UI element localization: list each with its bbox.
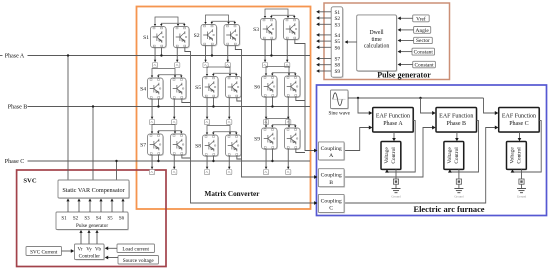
block gate signal demux S1-S9: [332, 8, 344, 78]
svg-text:Phase C: Phase C: [509, 121, 529, 127]
wire controller to pulse generator x81: [80, 231, 82, 245]
wire S6a gate return to terminator: [265, 97, 267, 119]
svg-text:EAF Function: EAF Function: [376, 113, 410, 119]
terminator S9b: [286, 170, 291, 175]
svg-text:S1: S1: [61, 216, 67, 221]
wire S4a gate return to terminator: [151, 99, 153, 119]
wire S7a emitter to phase bus: [157, 155, 159, 161]
svg-text:C: C: [329, 206, 333, 212]
block EAF Function Phase A: [374, 109, 415, 134]
IGBT block S2b: [225, 26, 241, 47]
gate wire bracket S5: [207, 67, 230, 75]
gate wire bracket S7: [152, 125, 175, 133]
wire gate signal S3: [320, 23, 332, 25]
wire S3b gate return to terminator: [286, 40, 288, 62]
terminator S2b: [225, 63, 230, 68]
wire SVC gate 1: [67, 199, 69, 212]
wire S2a gate return to terminator: [205, 46, 207, 62]
wire S2a emitter to phase bus: [211, 46, 213, 56]
wire measurement A to ground: [395, 184, 397, 188]
terminator S9a: [263, 170, 268, 175]
block Coupling C: [319, 195, 345, 213]
wire S9a gate return to terminator: [265, 149, 267, 169]
svg-text:S6: S6: [119, 216, 125, 221]
block Coupling B: [319, 170, 345, 188]
wire S6 output jog to bus 3: [296, 97, 305, 101]
terminator S5a: [204, 120, 209, 125]
svg-text:S3: S3: [253, 27, 259, 33]
measurement block C: [519, 179, 524, 184]
gate wire bracket S4: [152, 69, 175, 77]
wire sine wave distribution bus: [348, 97, 484, 99]
block SVC pulse generator: [57, 213, 129, 231]
wire Phase B bus: [28, 106, 311, 108]
wire EAF A output to Voltage Control A input: [387, 121, 415, 172]
wire coupling C feedback to EAF: [344, 128, 495, 204]
svg-text:Sine wave: Sine wave: [328, 111, 350, 117]
svg-text:Controller: Controller: [79, 253, 101, 259]
wire SVC Current to controller: [62, 250, 72, 252]
region box Electric arc furnace: [317, 85, 547, 216]
svg-text:Control: Control: [454, 147, 460, 164]
wire S9b gate return to terminator: [287, 149, 289, 169]
svg-text:Sector: Sector: [416, 38, 430, 44]
block Constant source: [412, 48, 435, 55]
wire S4 output jog to bus 1: [182, 99, 191, 103]
block Voltage Control A: [382, 143, 402, 171]
wire Phase C bus: [28, 160, 311, 162]
block Voltage Control C: [508, 143, 528, 171]
block Constant source: [413, 61, 436, 68]
svg-text:time: time: [371, 37, 382, 43]
terminator S4a: [149, 120, 154, 125]
svg-text:calculation: calculation: [364, 44, 390, 50]
block Source voltage: [118, 256, 159, 265]
wire S6b gate return to terminator: [287, 97, 289, 119]
svg-text:S3: S3: [84, 216, 90, 221]
wire controller to pulse generator x89: [88, 231, 90, 245]
svg-text:Control: Control: [391, 147, 397, 164]
wire S9a emitter to phase bus: [271, 149, 273, 161]
IGBT block S9b: [286, 129, 302, 150]
wire coupling B feedback to EAF: [344, 128, 432, 178]
IGBT block S3a: [262, 20, 278, 41]
wire Phase B tap to SVC: [92, 107, 94, 181]
wire S1b gate return to terminator: [176, 48, 178, 62]
wire Load current to controller: [108, 247, 118, 249]
svg-text:Vb: Vb: [95, 247, 102, 252]
svg-text:Phase A: Phase A: [5, 54, 25, 60]
wire S1a gate return to terminator: [154, 48, 156, 62]
gate wire bracket S6: [266, 67, 289, 75]
wire SVC gate 5: [111, 199, 113, 212]
measurement block A: [393, 179, 398, 184]
IGBT block S4b: [172, 79, 188, 100]
svg-text:S9: S9: [254, 137, 260, 143]
wire Voltage Control B to measurement: [458, 169, 460, 179]
svg-text:Constant: Constant: [414, 62, 434, 68]
wire SVC gate 6: [122, 199, 124, 212]
svg-text:S3: S3: [334, 22, 340, 28]
svg-text:Pulse generator: Pulse generator: [377, 71, 431, 80]
gate wire bracket S2: [206, 15, 229, 23]
terminator S6b: [286, 120, 291, 125]
terminator S8b: [227, 170, 232, 175]
block Dwell time calculation: [358, 16, 398, 72]
terminator S1a: [152, 63, 157, 68]
wire gate signal S5: [320, 40, 332, 42]
wire S3a gate return to terminator: [264, 40, 266, 62]
measurement block B: [456, 179, 461, 184]
wire measurement B to ground: [458, 184, 460, 188]
svg-text:S5: S5: [107, 216, 113, 221]
wire gate signal S6: [320, 46, 332, 48]
svg-text:B: B: [329, 180, 333, 186]
wire gate signal S2: [320, 17, 332, 19]
wire EAF C to Voltage Control C: [519, 132, 521, 141]
wire Source voltage to controller: [108, 257, 119, 259]
IGBT block S8b: [227, 136, 243, 157]
wire S5a gate return to terminator: [206, 98, 208, 119]
wire SVC gate 4: [100, 199, 102, 212]
IGBT block S1a: [152, 28, 168, 49]
wire Sector to dwell block: [400, 40, 413, 42]
wire S5a emitter to phase bus: [212, 98, 214, 107]
block SVC Current: [26, 247, 62, 256]
svg-text:S5: S5: [195, 85, 201, 91]
gate wire bracket S8: [207, 126, 230, 134]
IGBT block S1b: [175, 28, 191, 49]
gate wire bracket S3: [265, 9, 288, 17]
wire S7b gate return to terminator: [173, 155, 175, 169]
svg-text:Phase C: Phase C: [5, 159, 25, 165]
IGBT block S2a: [202, 26, 218, 47]
block Voltage Control B: [445, 143, 465, 171]
block Vref source: [413, 15, 430, 22]
wire gate signal S4: [320, 34, 332, 36]
svg-text:SVC: SVC: [23, 178, 36, 185]
svg-text:S8: S8: [334, 63, 340, 69]
svg-text:S2: S2: [73, 216, 79, 221]
terminator S4b: [172, 120, 177, 125]
IGBT block S6a: [263, 77, 279, 98]
wire Phase C tap to SVC: [116, 161, 118, 180]
wire gate signal S9: [320, 70, 332, 72]
wire controller to pulse generator x97: [96, 231, 98, 245]
svg-text:S2: S2: [334, 16, 340, 22]
svg-text:Voltage: Voltage: [384, 147, 390, 164]
IGBT block S7b: [172, 135, 188, 156]
svg-text:Ground: Ground: [391, 194, 401, 198]
IGBT block S9a: [263, 129, 279, 150]
IGBT block S5a: [204, 78, 220, 99]
wire gate signal S1: [320, 11, 332, 13]
svg-text:Coupling: Coupling: [321, 146, 342, 152]
block Sector source: [414, 37, 433, 43]
svg-text:Ground: Ground: [454, 194, 464, 198]
svg-text:S1: S1: [143, 35, 149, 41]
svg-text:Electric arc furnace: Electric arc furnace: [414, 205, 485, 214]
wire EAF C output to Voltage Control C input: [513, 121, 542, 172]
svg-text:S7: S7: [334, 57, 340, 63]
wire S7 output jog to bus 1: [182, 155, 191, 158]
terminator S1b: [175, 63, 180, 68]
ground phase B: [454, 188, 463, 190]
junction sine to EAF B: [419, 97, 421, 99]
wire sine drop to EAF Phase C: [484, 98, 496, 113]
wire dwell output to demux: [348, 41, 357, 43]
junction sine to EAF A: [357, 97, 359, 99]
terminator S6a: [263, 120, 268, 125]
wire SVC gate 2: [78, 199, 80, 212]
wire Vref to dwell block: [400, 17, 413, 19]
block Coupling A: [319, 143, 345, 161]
svg-text:Vy: Vy: [86, 247, 92, 252]
wire Phase A tap to SVC: [67, 56, 69, 181]
ground phase C: [517, 188, 526, 190]
svg-text:S8: S8: [195, 144, 201, 150]
wire coupling A feedback to EAF: [344, 128, 369, 151]
wire sine drop to EAF Phase A: [358, 98, 369, 113]
terminator S5b: [227, 120, 232, 125]
terminator S3a: [262, 63, 267, 68]
wire S5 output jog to bus 2: [237, 98, 242, 102]
svg-text:S4: S4: [140, 87, 146, 93]
junction Phase C: [115, 160, 117, 162]
wire SVC gate 3: [89, 199, 91, 212]
wire Phase A bus: [0, 55, 3, 57]
IGBT block S3b: [285, 20, 301, 41]
wire S6a emitter to phase bus: [271, 97, 273, 107]
svg-text:Control: Control: [517, 147, 523, 164]
IGBT block S6b: [286, 77, 302, 98]
svg-text:Coupling: Coupling: [321, 173, 342, 179]
svg-text:S4: S4: [96, 216, 102, 221]
svg-text:S5: S5: [334, 39, 340, 45]
wire S9 output jog to bus 3: [296, 149, 305, 153]
svg-text:Constant: Constant: [414, 50, 434, 56]
svg-text:Static VAR Compensator: Static VAR Compensator: [62, 187, 124, 194]
IGBT block S7a: [149, 135, 165, 156]
svg-text:Voltage: Voltage: [510, 147, 516, 164]
wire S8b gate return to terminator: [228, 156, 230, 169]
wire S8a gate return to terminator: [206, 156, 208, 169]
block EAF Function Phase B: [437, 109, 478, 134]
wire S2b gate return to terminator: [227, 46, 229, 62]
IGBT block S4a: [149, 79, 165, 100]
wire Constant to dwell block: [400, 64, 413, 66]
wire measurement C to ground: [521, 184, 523, 188]
svg-text:Matrix Converter: Matrix Converter: [205, 190, 261, 198]
wire output bus column 3: [295, 40, 315, 151]
terminator S8a: [204, 170, 209, 175]
region box Pulse generator: [324, 3, 450, 80]
svg-text:Ground: Ground: [517, 194, 527, 198]
terminator S7a: [149, 170, 154, 175]
block Load current: [117, 244, 155, 253]
svg-text:S6: S6: [334, 45, 340, 51]
terminator S3b: [285, 63, 290, 68]
wire S7a gate return to terminator: [151, 155, 153, 169]
terminator S7b: [172, 170, 177, 175]
svg-text:Vref: Vref: [416, 15, 426, 22]
wire Angle to dwell block: [400, 29, 413, 31]
svg-text:Load current: Load current: [122, 247, 149, 253]
wire output bus column 1: [185, 48, 315, 204]
svg-text:S2: S2: [194, 33, 200, 39]
block Vr Vy Vb Controller: [76, 245, 106, 261]
svg-text:Phase B: Phase B: [447, 121, 467, 127]
wire Voltage Control C to measurement: [521, 169, 523, 179]
block Angle source: [414, 27, 431, 34]
svg-text:EAF Function: EAF Function: [502, 113, 536, 119]
wire EAF B to Voltage Control B: [456, 132, 458, 141]
svg-text:S7: S7: [140, 143, 146, 149]
wire gate signal S8: [320, 64, 332, 66]
svg-text:Vr: Vr: [78, 247, 83, 252]
wire Voltage Control A to measurement: [395, 169, 397, 179]
svg-text:S4: S4: [334, 33, 340, 39]
region box Matrix Converter: [137, 7, 311, 210]
gate wire bracket S1: [155, 17, 178, 25]
ground phase A: [392, 188, 401, 190]
wire S8 output jog to bus 2: [237, 156, 242, 159]
svg-text:EAF Function: EAF Function: [439, 113, 473, 119]
wire S5b gate return to terminator: [228, 98, 230, 119]
IGBT block S8a: [204, 136, 220, 157]
svg-text:Dwell: Dwell: [370, 30, 385, 36]
svg-text:SVC Current: SVC Current: [30, 250, 58, 256]
block Sine wave source: [332, 91, 350, 110]
wire S1a emitter to phase bus: [160, 48, 162, 56]
block Static VAR Compensator: [59, 181, 130, 199]
svg-text:Voltage: Voltage: [447, 147, 453, 164]
wire Constant to dwell block: [400, 51, 412, 53]
wire S4a emitter to phase bus: [157, 99, 159, 107]
block EAF Function Phase C: [500, 109, 541, 134]
wire EAF B output to Voltage Control B input: [450, 121, 479, 172]
wire output bus column 2: [235, 46, 315, 178]
wire EAF A to Voltage Control A: [393, 132, 395, 141]
wire sine drop to EAF Phase B: [421, 98, 433, 113]
region box SVC: [17, 170, 166, 267]
svg-text:S9: S9: [334, 69, 340, 75]
svg-text:Angle: Angle: [416, 28, 430, 34]
svg-text:Phase A: Phase A: [383, 121, 403, 127]
junction Phase A: [67, 54, 69, 56]
wire S8a emitter to phase bus: [212, 156, 214, 161]
wire S3a emitter to phase bus: [270, 40, 272, 56]
wire S4b gate return to terminator: [173, 99, 175, 119]
svg-text:Source voltage: Source voltage: [123, 258, 155, 264]
svg-text:Coupling: Coupling: [321, 198, 342, 204]
junction Phase B: [92, 105, 94, 107]
wire gate signal S7: [320, 58, 332, 60]
IGBT block S5b: [227, 78, 243, 99]
gate wire bracket S9: [266, 119, 289, 127]
svg-text:S1: S1: [334, 10, 340, 16]
svg-text:Phase B: Phase B: [8, 105, 28, 111]
svg-text:Pulse generator: Pulse generator: [76, 223, 108, 229]
svg-text:S6: S6: [254, 85, 260, 91]
terminator S2a: [203, 63, 208, 68]
